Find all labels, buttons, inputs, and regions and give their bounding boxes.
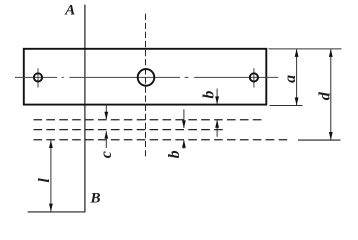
top extension line for dims a and d (269, 48, 342, 50)
dim l bottom arrow (49, 204, 53, 212)
dim c down arrow (104, 112, 108, 120)
dim b upper up arrow (215, 120, 219, 128)
dim d top arrow (329, 49, 333, 57)
dim c lower leader (105, 131, 107, 148)
svg-text:B: B (90, 191, 101, 207)
svg-text:b: b (200, 91, 217, 99)
scribed dashed line 1 (34, 119, 264, 121)
horizontal centerline (15, 76, 278, 78)
dim a bottom arrow (295, 98, 299, 106)
left hole tick (37, 68, 39, 87)
dim a line (296, 50, 298, 106)
dim b lower down arrow (182, 120, 186, 128)
dim l top arrow (49, 140, 53, 148)
solid extension of line 3 for dim d (298, 139, 341, 141)
dim a top arrow (295, 49, 299, 57)
dim b lower lower leader (183, 140, 185, 148)
bottom reference line (28, 211, 86, 213)
dim c upper leader (105, 105, 107, 120)
dim b upper down arrow (215, 96, 219, 104)
svg-text:d: d (317, 91, 334, 100)
right hole tick (253, 68, 255, 87)
svg-text:c: c (98, 151, 115, 158)
vertical centerline dashed through middle hole (145, 14, 147, 159)
dim l line (50, 141, 52, 212)
scribed dashed line 3 (34, 139, 289, 141)
svg-text:l: l (36, 178, 53, 183)
dim b upper: leader above plate bottom edge (216, 89, 218, 104)
section line A-B vertical (84, 5, 86, 213)
dim b lower up arrow (182, 140, 186, 148)
dim b lower upper leader (183, 109, 185, 128)
scribed dashed line 2 (34, 129, 225, 131)
dim d bottom arrow (329, 132, 333, 140)
svg-text:b: b (166, 150, 183, 158)
left hole (34, 73, 42, 81)
dim d line (330, 50, 332, 140)
middle hole (138, 69, 155, 86)
plate outline (24, 49, 266, 105)
bottom extension line for dim a (270, 105, 303, 107)
svg-text:a: a (282, 75, 299, 83)
dim c up arrow (104, 131, 108, 138)
dim b upper lower leader (216, 120, 218, 136)
right hole (250, 73, 258, 81)
svg-text:A: A (64, 3, 75, 19)
